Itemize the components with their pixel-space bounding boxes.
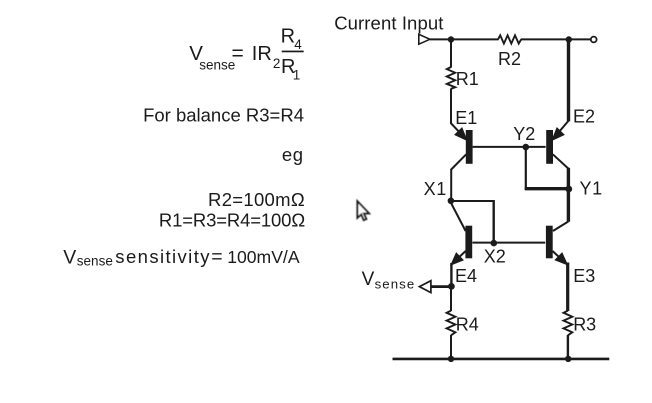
svg-text:E3: E3 [573,266,595,286]
wire: Y2 to Y1 (thick) [525,187,569,190]
wire: node B down to Q2 emitter (thick) [567,40,570,122]
svg-text:=: = [211,246,222,268]
svg-text:X2: X2 [484,247,506,267]
input terminal triangle [419,34,430,44]
resistor R3 [564,311,573,336]
wire: Y2 down [525,147,527,190]
svg-text:eg: eg [282,144,304,165]
wire: base bus Q3-Q4 (node X2) [472,242,545,244]
wire: R2 to node B [521,38,569,40]
svg-text:4: 4 [294,37,302,52]
svg-text:V: V [362,269,375,290]
svg-text:100mV/A: 100mV/A [227,247,300,267]
wire: node E4 to Vsense arrow [431,285,452,288]
transistor Q4 (bottom-right, emitter E3) [546,222,568,265]
node: R4-rail junction [448,356,454,362]
resistor R4 [447,311,456,336]
svg-text:E2: E2 [573,107,595,127]
svg-text:1: 1 [293,68,301,83]
node A (input node) [448,36,454,42]
node E4 (Vsense tap) [448,283,455,290]
svg-text:E1: E1 [455,108,477,128]
svg-text:2: 2 [273,56,281,71]
ground rail [393,358,610,361]
wire: R3 to ground rail [567,335,569,359]
svg-text:sense: sense [375,277,416,292]
svg-text:E4: E4 [455,266,477,286]
wire: input triangle to node A [430,38,452,40]
node X2 [491,240,498,247]
wire: node E4 down to R4 [450,286,452,311]
svg-text:R1: R1 [456,69,479,89]
wire: node A to resistor R2 [451,38,499,40]
svg-text:Y2: Y2 [513,124,535,144]
node X1 [448,198,455,205]
transistor Q1 (top-left, emitter E1) [451,123,473,170]
transistor Q2 (top-right, emitter E2) [546,121,569,169]
Vsense arrow (open, pointing left) [419,281,431,293]
svg-text:R2: R2 [498,49,521,69]
text: Vsense sensitivity = 100mV/A [63,246,300,269]
wire: X1 branch down to X2 [493,200,495,244]
node B (output node) [566,36,572,42]
wire: node B to output terminal [569,38,591,40]
svg-text:X1: X1 [424,179,447,199]
wire: node A down to R1 [450,40,452,68]
node Y1 [565,186,572,193]
label Vsense [362,269,416,292]
svg-text:R4: R4 [456,315,479,335]
resistor R2 [498,35,521,43]
mouse cursor [357,201,369,220]
node Y2 [523,144,530,151]
svg-text:V: V [63,247,76,269]
svg-text:sensitivity: sensitivity [115,246,211,267]
transistor Q3 (bottom-left, emitter E4) [451,204,472,265]
wire: base bus Q1-Q2 (node Y2) [473,146,546,148]
wire: Q1 collector down to node X1 [450,169,452,201]
resistor R1 [447,67,455,89]
wire: X1 horizontal branch [451,200,494,202]
svg-text:R3: R3 [573,315,596,335]
svg-text:sense: sense [199,57,235,72]
wire: R1 to Q1 emitter [450,89,452,124]
svg-text:R2=100mΩ: R2=100mΩ [208,189,305,210]
svg-text:=: = [232,42,244,65]
wire: Q3 emitter down to node E4 [450,263,452,287]
svg-text:Y1: Y1 [580,179,603,199]
wire: Q2 collector to Q4 collector through Y1 (thick) [567,168,570,222]
svg-text:IR: IR [252,43,272,65]
svg-text:Current Input: Current Input [334,12,443,33]
svg-text:For balance R3=R4: For balance R3=R4 [143,105,304,126]
svg-text:R1=R3=R4=100Ω: R1=R3=R4=100Ω [159,209,305,230]
formula Vsense = I R2 (R4/R1) [189,25,303,82]
output terminal (open circle) [591,37,597,43]
svg-text:sense: sense [77,253,113,268]
wire: Q4 emitter down to R3 (thick) [566,263,569,312]
svg-text:R: R [281,25,295,47]
node: R3-rail junction [565,356,571,362]
wire: R4 to ground rail [450,335,452,359]
